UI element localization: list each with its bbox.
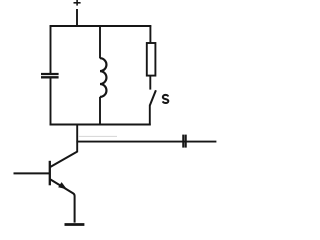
transistor Q1 emitter diagonal xyxy=(50,179,74,222)
transistor Q1 collector diagonal xyxy=(50,152,77,168)
wire left branch upper xyxy=(50,25,52,73)
wire collector vertical xyxy=(76,124,78,153)
wire right branch upper xyxy=(149,25,151,42)
wire resistor to switch xyxy=(149,76,151,90)
capacitor C1 xyxy=(41,74,59,77)
wire supply feed xyxy=(76,9,78,27)
label S xyxy=(163,95,169,103)
wire left branch lower xyxy=(50,78,52,125)
wire base lead xyxy=(14,172,50,174)
wire output ghost xyxy=(78,135,117,137)
transistor Q1 base bar xyxy=(49,161,51,186)
inductor L1 xyxy=(100,58,106,97)
capacitor C2 xyxy=(183,135,185,148)
wire middle branch lower xyxy=(99,97,101,125)
switch S blade xyxy=(150,90,156,105)
wire output line xyxy=(76,141,216,143)
wire right branch lower xyxy=(149,105,151,126)
wire middle branch upper xyxy=(99,25,101,58)
ground xyxy=(65,223,85,226)
wire top rail xyxy=(50,25,152,27)
supply plus symbol xyxy=(74,0,81,6)
wire bottom rail xyxy=(50,124,151,126)
transistor Q1 emitter arrowhead xyxy=(58,182,67,189)
resistor R1 xyxy=(147,43,156,76)
